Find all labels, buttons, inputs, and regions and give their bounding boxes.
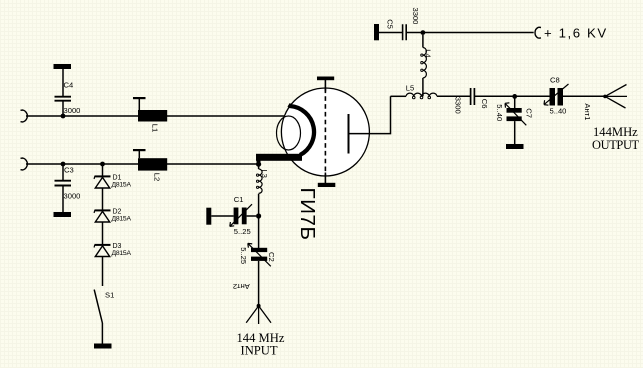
wire S1-ground bbox=[101, 323, 103, 344]
node C5/L4 junction bbox=[421, 30, 426, 35]
connector X2 row2 bbox=[21, 158, 28, 170]
node C4/row1 junction bbox=[61, 114, 66, 119]
node C1 junction bbox=[256, 213, 261, 218]
inductor L5 bbox=[391, 93, 471, 99]
tube heater ellipse bbox=[277, 116, 301, 150]
capacitor C3 bbox=[54, 164, 72, 217]
ground below S1 bbox=[94, 344, 112, 349]
connector +1.6KV bbox=[535, 27, 541, 38]
trimmer capacitor C1 bbox=[206, 204, 256, 226]
capacitor C5 bbox=[379, 24, 534, 40]
svg-text:L5: L5 bbox=[406, 84, 414, 93]
svg-text:C8: C8 bbox=[550, 75, 560, 84]
svg-text:5..25: 5..25 bbox=[234, 227, 251, 236]
svg-text:L4: L4 bbox=[424, 49, 433, 57]
ground C7 bbox=[506, 144, 524, 149]
wire D3-S1 bbox=[102, 257, 104, 287]
svg-text:OUTPUT: OUTPUT bbox=[592, 138, 640, 152]
choke L1 bbox=[133, 97, 167, 122]
inductor L4 bbox=[421, 35, 427, 96]
anode lead wire bbox=[349, 96, 391, 133]
svg-text:C4: C4 bbox=[64, 81, 74, 90]
tube anode bar bbox=[348, 114, 350, 154]
svg-text:Д815А: Д815А bbox=[112, 216, 132, 223]
antenna output symbol bbox=[603, 85, 627, 109]
trimmer capacitor C8 bbox=[544, 84, 569, 106]
svg-text:5..40: 5..40 bbox=[550, 106, 567, 115]
svg-text:C6: C6 bbox=[480, 99, 489, 109]
svg-text:3300: 3300 bbox=[411, 8, 420, 25]
switch S1 blade bbox=[94, 290, 102, 323]
svg-text:5..25: 5..25 bbox=[239, 247, 248, 264]
grid top terminal bbox=[324, 80, 326, 92]
svg-text:C2: C2 bbox=[267, 252, 276, 262]
svg-text:L3: L3 bbox=[260, 169, 269, 177]
wire D2-D3 bbox=[102, 222, 104, 245]
capacitor C4 bbox=[54, 64, 72, 116]
capacitor C6 bbox=[471, 88, 475, 105]
svg-text:C7: C7 bbox=[524, 108, 533, 118]
connector X1 row1 bbox=[21, 110, 28, 122]
svg-text:D2: D2 bbox=[113, 209, 122, 216]
node C3/row2 junction bbox=[61, 162, 66, 167]
svg-text:L2: L2 bbox=[152, 173, 161, 181]
svg-text:Ант1: Ант1 bbox=[583, 103, 592, 120]
tube U1 envelope bbox=[281, 88, 369, 176]
svg-text:Ант2: Ант2 bbox=[233, 282, 250, 291]
svg-text:D3: D3 bbox=[113, 243, 122, 250]
svg-text:INPUT: INPUT bbox=[241, 344, 278, 358]
svg-text:+ 1,6 KV: + 1,6 KV bbox=[544, 25, 608, 40]
svg-text:ГИ7Б: ГИ7Б bbox=[296, 188, 319, 241]
svg-text:Д815А: Д815А bbox=[112, 182, 132, 189]
node cathode junction bbox=[256, 162, 261, 167]
trimmer capacitor C7 bbox=[505, 96, 526, 144]
wire row1 from connector to tube heater bbox=[26, 115, 288, 117]
svg-text:L1: L1 bbox=[151, 124, 160, 132]
tube grid dashed line bbox=[324, 89, 326, 176]
diode D2 (zener) bbox=[94, 210, 110, 222]
svg-text:Д815А: Д815А bbox=[112, 250, 132, 257]
svg-text:5..40: 5..40 bbox=[495, 104, 504, 121]
node C7 junction bbox=[512, 94, 517, 99]
wire C8 to antenna bbox=[563, 95, 605, 97]
svg-text:D1: D1 bbox=[113, 175, 122, 182]
svg-text:3000: 3000 bbox=[64, 192, 81, 201]
diode D3 (zener) bbox=[94, 245, 110, 257]
svg-text:3000: 3000 bbox=[64, 106, 81, 115]
svg-text:C1: C1 bbox=[234, 195, 244, 204]
antenna input symbol bbox=[246, 304, 271, 324]
svg-text:3300: 3300 bbox=[453, 97, 462, 114]
grid bottom terminal bbox=[324, 173, 326, 184]
inductor L3 bbox=[257, 166, 263, 214]
ground C5 bbox=[374, 24, 379, 40]
diode D1 (zener) bbox=[94, 164, 110, 188]
wire D1-D2 bbox=[102, 188, 104, 210]
tube cathode arc bbox=[289, 105, 314, 155]
node D1/row2 junction bbox=[100, 162, 105, 167]
wire C1 node to C2 bbox=[258, 218, 260, 248]
svg-text:S1: S1 bbox=[105, 291, 114, 300]
choke L2 bbox=[133, 149, 167, 171]
svg-text:C5: C5 bbox=[385, 19, 394, 29]
svg-text:C3: C3 bbox=[64, 166, 74, 175]
trimmer capacitor C2 bbox=[248, 243, 271, 266]
wire C6 to C8 bbox=[474, 95, 549, 97]
cathode thick bar bbox=[256, 154, 302, 161]
wire C2 to antenna bbox=[258, 261, 260, 306]
wire row2 from connector to cathode bbox=[26, 163, 259, 165]
